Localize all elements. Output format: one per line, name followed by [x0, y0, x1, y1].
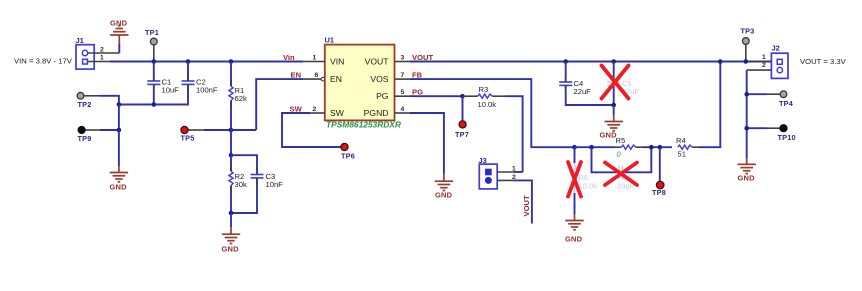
wire SW to TP6	[282, 113, 341, 147]
component lead stubs (dark)	[154, 75, 566, 192]
svg-text:22uF: 22uF	[574, 87, 592, 96]
svg-text:GND: GND	[600, 131, 618, 140]
svg-text:J1: J1	[76, 36, 84, 45]
node R2/C3 top junction	[229, 153, 234, 158]
wire down to R2	[230, 130, 232, 155]
wire bus to ground	[118, 130, 120, 166]
op-amp U1 body	[325, 36, 401, 130]
capacitor C6 (DNP ghost)	[617, 166, 635, 191]
DNP cross over C6	[605, 163, 637, 186]
wire R5 to junctions	[643, 146, 672, 148]
wire J3 pin2 VOUT stub	[514, 180, 532, 223]
wire TP2 to bus	[100, 96, 119, 105]
node R4 junction on rail	[718, 59, 723, 64]
svg-text:EN: EN	[291, 71, 302, 80]
node cap-ground junction	[117, 102, 122, 107]
svg-text:TP10: TP10	[778, 133, 796, 142]
svg-text:3: 3	[401, 55, 405, 62]
node R1/TP5/EN junction	[229, 128, 234, 133]
connector J2	[771, 44, 788, 79]
ground (top-left, above J1)	[110, 19, 129, 45]
node C4/C5 bottom junction	[611, 103, 616, 108]
resistor R1	[229, 86, 247, 103]
svg-text:R4: R4	[676, 136, 686, 145]
node C6 right junction	[649, 145, 654, 150]
svg-text:PG: PG	[412, 88, 423, 97]
wire rail to C5	[613, 62, 615, 83]
node R6 junction on FB row	[572, 145, 577, 150]
wire to ground below C4/C5	[613, 105, 615, 115]
wire TP5 to junction	[204, 129, 231, 131]
svg-text:30k: 30k	[235, 180, 247, 189]
svg-text:TP2: TP2	[78, 100, 92, 109]
capacitor C2	[182, 78, 218, 95]
wire C3 branch top	[231, 155, 257, 174]
svg-text:Vin: Vin	[283, 53, 295, 62]
node C4 junction on rail	[563, 59, 568, 64]
test point TP10	[767, 125, 796, 142]
connector J3	[479, 156, 498, 189]
svg-text:6: 6	[315, 72, 319, 79]
ground (below R6)	[565, 214, 584, 244]
wire rail to C4	[565, 62, 567, 83]
svg-text:GND: GND	[222, 245, 240, 254]
wire pin2 to GND	[118, 44, 120, 54]
svg-text:GND: GND	[565, 235, 583, 244]
test point TP1	[145, 28, 159, 62]
svg-text:VOUT: VOUT	[365, 57, 390, 67]
wire C1 bottom	[153, 84, 155, 104]
svg-text:J2: J2	[772, 44, 780, 53]
capacitor C5 (DNP ghost)	[607, 79, 639, 96]
wire VOUT rail	[410, 61, 771, 63]
svg-text:GND: GND	[110, 19, 128, 28]
svg-text:VOS: VOS	[370, 74, 388, 84]
svg-text:TP9: TP9	[78, 134, 92, 143]
wire VIN rail	[110, 61, 303, 63]
test point TP8	[652, 181, 666, 197]
svg-text:U1: U1	[325, 36, 335, 45]
svg-text:TP5: TP5	[181, 134, 195, 143]
ground (below PGND)	[435, 174, 453, 200]
U1 pin 4 stub	[395, 112, 411, 114]
svg-text:1: 1	[100, 55, 104, 62]
J2 pin 2 stub	[747, 69, 772, 71]
U1 pin 7 stub	[395, 78, 411, 80]
ground (below J2 bus)	[738, 158, 756, 183]
wire R6 top lead	[574, 147, 576, 163]
svg-text:TP7: TP7	[455, 130, 469, 139]
U1 pin 5 stub	[395, 95, 411, 97]
wire FB net	[410, 79, 575, 147]
wire C2 bottom	[119, 84, 188, 104]
svg-text:GND: GND	[110, 183, 128, 192]
node TP9 junction	[117, 128, 122, 133]
wire R1 bottom to junction	[230, 101, 232, 130]
wire junction to R2	[230, 155, 232, 171]
wire C4 bottom	[566, 85, 614, 105]
node C6 left junction	[589, 145, 594, 150]
U1 pin 6 stub	[303, 78, 321, 80]
capacitor C3	[251, 172, 284, 189]
node R1 junction on rail	[229, 59, 234, 64]
svg-text:62k: 62k	[235, 94, 247, 103]
ground (below C4/C5)	[600, 115, 623, 140]
U1 pin 3 stub	[395, 61, 411, 63]
svg-text:SW: SW	[330, 108, 345, 118]
svg-text:TP4: TP4	[779, 99, 794, 108]
resistor R4	[676, 136, 699, 159]
wire R6 bottom to ground	[574, 193, 576, 214]
svg-text:VOUT = 3.3V: VOUT = 3.3V	[800, 57, 847, 66]
DNP cross over R6	[568, 162, 581, 197]
node C2 junction on rail	[186, 59, 191, 64]
node C5 junction on rail	[611, 59, 616, 64]
J3 pin 2 stub	[497, 179, 514, 181]
svg-text:2: 2	[762, 62, 766, 69]
test point TP3	[741, 27, 755, 62]
test point TP4	[767, 91, 794, 108]
U1 pin 2 stub	[310, 112, 325, 114]
svg-text:4: 4	[401, 106, 405, 113]
connector J1	[76, 36, 95, 69]
svg-text:10uF: 10uF	[162, 86, 180, 95]
svg-text:10.0k: 10.0k	[478, 100, 497, 109]
node TP10 junction	[744, 126, 749, 131]
svg-text:TP6: TP6	[341, 152, 355, 161]
wire C6 loop	[592, 147, 620, 172]
svg-text:TP1: TP1	[145, 28, 159, 37]
J1 pin 2 stub	[88, 52, 119, 54]
node TP3 junction on rail	[744, 59, 749, 64]
wire J2 pin2 down	[746, 70, 748, 158]
wire down to TP9 row	[118, 105, 120, 131]
test point TP6	[341, 143, 355, 160]
node C1 bottom junction	[152, 102, 157, 107]
wire R2 bottom	[230, 186, 232, 213]
svg-text:TP8: TP8	[652, 188, 666, 197]
capacitor C1	[147, 78, 179, 95]
svg-text:R3: R3	[479, 85, 489, 94]
resistor R5	[615, 136, 643, 159]
wire rail to C2	[187, 62, 189, 82]
wire TP4 to bus	[747, 93, 767, 95]
U1 pin 6 bubble	[321, 77, 325, 81]
wire R3 to J3 pin1	[505, 96, 523, 172]
capacitor C4	[559, 79, 591, 96]
svg-text:EN: EN	[330, 74, 342, 84]
svg-text:TP3: TP3	[741, 27, 755, 36]
resistor R6 (DNP ghost)	[572, 163, 597, 193]
ground (below R2/C3)	[222, 227, 241, 254]
wire rail to R1	[230, 62, 232, 87]
svg-text:PG: PG	[376, 91, 389, 101]
wire EN riser	[256, 79, 303, 130]
wire junction to TP8	[659, 147, 661, 181]
DNP cross over C5	[602, 66, 629, 99]
wire R4 to VOUT rail	[699, 62, 720, 148]
svg-text:2: 2	[313, 106, 317, 113]
svg-text:1: 1	[762, 54, 766, 61]
wire TP9 to bus	[100, 129, 119, 131]
svg-text:7: 7	[401, 72, 405, 79]
wire C5 bottom stub	[613, 85, 615, 105]
wire junction to EN riser	[231, 129, 256, 131]
svg-text:10nF: 10nF	[266, 180, 284, 189]
node PG/TP7 junction	[460, 94, 465, 99]
node VIN/C1 junction	[152, 59, 157, 64]
U1 pin 1 stub	[303, 61, 325, 63]
svg-text:GND: GND	[738, 174, 756, 183]
svg-text:VIN: VIN	[330, 57, 344, 67]
test point TP9	[78, 126, 101, 143]
J1 pin 1 stub	[88, 61, 110, 63]
node TP4 junction	[744, 92, 749, 97]
J2 pin 1 stub	[749, 61, 771, 63]
svg-text:PGND: PGND	[364, 108, 389, 118]
svg-text:5: 5	[401, 89, 405, 96]
wire C6 loop right	[622, 147, 651, 172]
wire rail to C1	[153, 62, 155, 82]
node TP8 junction	[658, 145, 663, 150]
resistor R2	[229, 171, 247, 189]
svg-text:1: 1	[313, 55, 317, 62]
J3 pin 1 stub	[497, 171, 514, 173]
ground (below TP2/TP9)	[110, 166, 129, 192]
node R2/C3 bottom junction	[229, 211, 234, 216]
wire junction to TP7	[462, 96, 464, 121]
wire C3 branch bottom	[231, 178, 257, 213]
wire FB row through R5	[575, 146, 616, 148]
wire TP10 to bus	[747, 127, 767, 129]
svg-text:TPSM861253RDXR: TPSM861253RDXR	[326, 120, 401, 130]
test point TP2	[77, 92, 100, 109]
resistor R3	[463, 85, 506, 109]
wire J3 pin1	[514, 171, 523, 173]
svg-text:R5: R5	[616, 136, 626, 145]
wire PG to junction	[410, 95, 463, 97]
svg-text:10.0k: 10.0k	[579, 182, 598, 191]
svg-text:100nF: 100nF	[196, 86, 218, 95]
svg-text:VIN = 3.8V - 17V: VIN = 3.8V - 17V	[14, 57, 73, 66]
wire to ground below R2	[230, 213, 232, 227]
test point TP5	[181, 126, 205, 142]
test point TP7	[455, 121, 469, 139]
wire PGND to ground	[410, 113, 444, 174]
svg-text:VOUT: VOUT	[522, 195, 531, 216]
svg-text:GND: GND	[435, 191, 453, 200]
svg-text:51: 51	[678, 150, 686, 159]
